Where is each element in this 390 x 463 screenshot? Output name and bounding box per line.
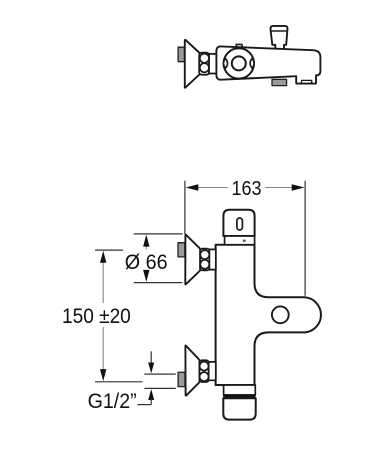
dim Ø66: top extension line <box>134 233 183 235</box>
svg-text:G1/2”: G1/2” <box>88 390 137 413</box>
top view: diverter knob <box>271 26 288 50</box>
front: foot neck <box>224 385 256 395</box>
tolerance band: upper arrow <box>150 351 152 363</box>
front: collar marking <box>243 240 246 242</box>
front upper inlet: gray wall stub <box>178 243 185 257</box>
dim 150±20: vertical dimension line <box>102 262 104 304</box>
front upper inlet: adapter <box>209 249 215 269</box>
front: collar under knob <box>225 236 255 245</box>
dim 150±20: top extension line <box>95 249 123 251</box>
front lower inlet: adapter <box>209 362 216 380</box>
front lower inlet: gray wall stub <box>178 372 185 386</box>
svg-text:150 ±20: 150 ±20 <box>62 305 131 328</box>
top view: tab on top of body <box>236 44 242 48</box>
front upper inlet: hex nut <box>200 249 209 271</box>
front lower inlet: escutcheon cone <box>185 345 199 395</box>
front: dark ring band <box>224 395 256 399</box>
G1/2 leader horizontal <box>138 404 152 406</box>
dim 163: dimension line <box>196 187 228 189</box>
front: body column with spout lobe <box>216 245 321 385</box>
front: knob slot <box>237 218 243 230</box>
dim 150±20: bottom extension line <box>95 381 143 383</box>
dim 150±20: down arrowhead <box>100 369 106 381</box>
dim Ø66: up arrowhead <box>143 235 149 247</box>
svg-text:163: 163 <box>232 178 262 200</box>
top view: escutcheon cone <box>185 40 200 88</box>
front: temperature knob <box>223 210 254 236</box>
dim 163: left extension line <box>184 181 186 234</box>
top view: right grip crescent <box>250 58 254 68</box>
top view: collar between nut and body <box>209 54 217 74</box>
top view: shower hose stub (gray) <box>272 79 287 85</box>
front: circle on spout lobe <box>272 306 289 323</box>
top view: spout body <box>216 46 320 83</box>
front: bottom cap <box>223 398 255 419</box>
dim 150±20: up arrowhead <box>100 251 106 263</box>
top view: aerator notch <box>302 80 312 83</box>
dim Ø66: bottom extension line <box>134 282 183 284</box>
dim 163: right arrowhead <box>292 184 305 190</box>
front upper inlet: escutcheon cone <box>185 235 200 285</box>
dim Ø66: arrow line segments <box>145 246 147 250</box>
tolerance band: upper line <box>144 373 175 375</box>
top view: hex nut <box>199 53 209 75</box>
top view: left grip crescent <box>224 58 228 68</box>
dim 163: left arrowhead <box>186 184 199 190</box>
svg-text:Ø 66: Ø 66 <box>125 251 168 274</box>
tolerance band: lower arrow (G1/2 leader) <box>148 389 154 400</box>
tolerance band: lower line <box>144 387 175 389</box>
dim 163: right extension line <box>304 181 306 296</box>
top view: handle inner circle <box>232 56 246 70</box>
top view: wall stub (gray) <box>178 47 184 62</box>
dim Ø66: down arrowhead <box>143 270 149 282</box>
top view: temperature handle (big circle) <box>224 48 254 78</box>
front lower inlet: hex nut <box>200 360 209 382</box>
